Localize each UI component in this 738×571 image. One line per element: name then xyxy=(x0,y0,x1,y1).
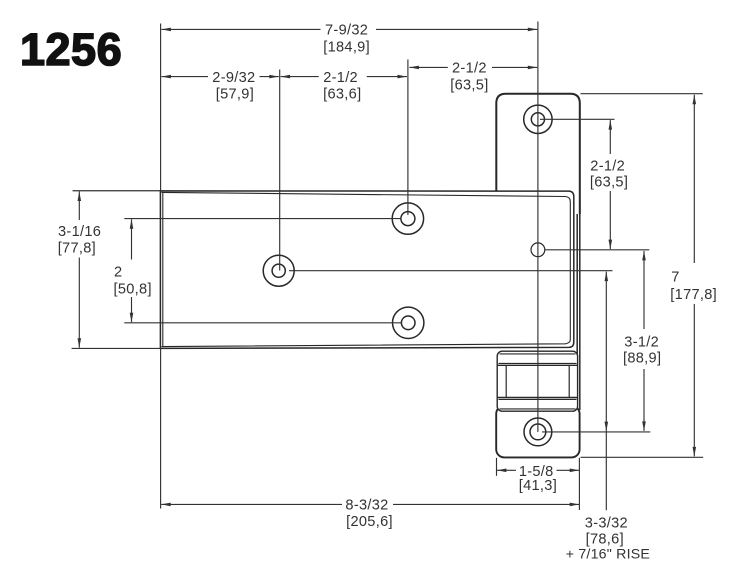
arrow 7-9/32 right xyxy=(528,28,538,32)
dim line 2-9/32 xyxy=(161,76,208,78)
dim line 2-1/2 right vertical xyxy=(609,120,611,154)
arrow 3-1/2 bottom xyxy=(642,421,646,431)
arrow 2-1/2 63,6 right xyxy=(398,75,408,79)
arrow 3-3/32 bottom xyxy=(605,422,609,432)
hinge cam knuckle body xyxy=(497,351,577,411)
center extension line through flap holes xyxy=(537,22,539,432)
svg-text:[205,6]: [205,6] xyxy=(346,514,393,530)
svg-text:3-1/16: 3-1/16 xyxy=(58,224,101,240)
dim line 2 vertical xyxy=(131,219,133,259)
arrow 7in bottom xyxy=(693,447,697,457)
top flap (right leaf top plate) xyxy=(496,94,580,214)
arrow 2in top xyxy=(130,219,134,229)
dim line 2-1/2 [63,5] top xyxy=(409,66,447,68)
svg-text:1256: 1256 xyxy=(20,24,122,75)
svg-text:[77,8]: [77,8] xyxy=(58,241,96,257)
svg-text:[50,8]: [50,8] xyxy=(114,281,152,297)
svg-text:[63,6]: [63,6] xyxy=(323,87,361,103)
extension line bottom flap right xyxy=(578,458,580,510)
arrow 2in bottom xyxy=(130,313,134,323)
svg-text:[57,9]: [57,9] xyxy=(216,87,254,103)
arrow 2-1/2 right bottom xyxy=(609,240,613,250)
svg-text:2-1/2: 2-1/2 xyxy=(590,158,625,174)
hole top flap xyxy=(524,105,552,133)
extension line flap hole right xyxy=(540,118,615,120)
extension line bottom hole row xyxy=(124,322,401,324)
svg-text:+ 7/16" RISE: + 7/16" RISE xyxy=(566,546,650,562)
svg-text:7: 7 xyxy=(671,270,679,286)
arrow 2-1/2 63,5 right xyxy=(528,66,538,70)
arrow 2-9/32 right xyxy=(269,75,279,79)
small pilot hole xyxy=(531,243,545,257)
extension line left hole vertical xyxy=(279,70,281,271)
knuckle bottom cap inner line xyxy=(500,408,576,410)
arrow 1-5/8 left xyxy=(497,469,507,473)
hole leaf top middle xyxy=(392,203,423,234)
svg-text:3-3/32: 3-3/32 xyxy=(585,516,628,532)
extension line left edge vertical top xyxy=(160,24,162,191)
dim line 7-9/32 xyxy=(161,28,320,30)
right leaf edge strip line inner xyxy=(576,191,578,406)
svg-text:2: 2 xyxy=(114,264,122,280)
svg-text:2-1/2: 2-1/2 xyxy=(452,61,487,77)
arrow 7in top xyxy=(693,95,697,105)
extension line leaf top left xyxy=(73,190,161,192)
bottom flap (right leaf bottom plate) xyxy=(496,406,579,458)
svg-text:[63,5]: [63,5] xyxy=(450,77,488,93)
extension line leaf bottom left xyxy=(72,347,161,349)
knuckle top cap inner line xyxy=(500,353,576,355)
extension line flap bottom right xyxy=(581,456,704,458)
knuckle block left inner line xyxy=(505,365,507,397)
hole leaf bottom middle xyxy=(393,307,424,338)
arrow 3-3/32 top xyxy=(605,272,609,282)
arrow 3-1/16 bottom xyxy=(78,338,82,348)
leaf inner left edge line xyxy=(162,192,164,347)
extension line top middle hole vertical xyxy=(407,60,409,216)
svg-text:8-3/32: 8-3/32 xyxy=(345,497,388,513)
svg-text:[41,3]: [41,3] xyxy=(519,478,557,494)
svg-text:3-1/2: 3-1/2 xyxy=(624,334,659,350)
dim line 7 vertical xyxy=(693,95,695,263)
svg-text:[78,6]: [78,6] xyxy=(586,532,624,548)
knuckle cap bottom double line xyxy=(499,362,577,364)
extension line flap top right xyxy=(581,93,703,95)
arrow 8-3/32 right xyxy=(570,503,580,507)
knuckle block right inner line xyxy=(568,365,570,397)
svg-text:[184,9]: [184,9] xyxy=(323,39,370,55)
svg-text:[88,9]: [88,9] xyxy=(623,351,661,367)
arrow 1-5/8 right xyxy=(570,469,580,473)
arrow 3-1/2 top xyxy=(642,251,646,261)
dim line 3-3/32 vertical with leader xyxy=(605,272,607,511)
extension line pilot hole right xyxy=(545,249,650,251)
svg-text:2-9/32: 2-9/32 xyxy=(212,70,255,86)
svg-text:2-1/2: 2-1/2 xyxy=(323,70,358,86)
arrow 7-9/32 left xyxy=(161,28,171,32)
hole bottom flap xyxy=(524,418,552,446)
extension line left edge vertical bottom xyxy=(160,348,162,508)
extension line middle hole row right xyxy=(289,270,613,272)
right leaf edge strip line outer xyxy=(579,200,581,410)
arrow 2-1/2 right top xyxy=(609,120,613,130)
svg-text:[177,8]: [177,8] xyxy=(670,287,717,303)
dim line 2-1/2 [63,6] xyxy=(281,76,319,78)
hole leaf left xyxy=(263,255,294,286)
svg-text:7-9/32: 7-9/32 xyxy=(325,23,368,39)
dim line 3-1/2 vertical xyxy=(643,251,645,329)
arrow 2-9/32 left xyxy=(161,75,171,79)
arrow 2-1/2 63,5 left xyxy=(409,66,419,70)
arrow 8-3/32 left xyxy=(161,503,171,507)
main leaf plate outline xyxy=(160,191,573,349)
extension line top hole row xyxy=(124,218,401,220)
leaf inner bevel line top/right/bottom xyxy=(162,192,571,346)
svg-text:[63,5]: [63,5] xyxy=(590,174,628,190)
extension line bottom hole right xyxy=(542,431,650,433)
dim line 8-3/32 xyxy=(161,503,342,505)
extension line bottom flap left xyxy=(496,458,498,476)
arrow 2-1/2 63,6 left xyxy=(281,75,291,79)
dim line 3-1/16 vertical xyxy=(78,192,80,221)
dim line 1-5/8 xyxy=(497,469,516,471)
arrow 3-1/16 top xyxy=(78,192,82,202)
knuckle block bottom double line xyxy=(497,397,577,399)
